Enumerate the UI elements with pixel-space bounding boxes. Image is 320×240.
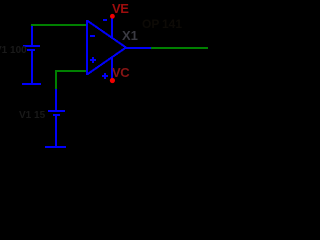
svg-text:V1 15: V1 15 xyxy=(19,110,46,121)
svg-text:141: 141 xyxy=(162,17,182,31)
svg-text:X1: X1 xyxy=(122,28,138,43)
svg-text:V1 100: V1 100 xyxy=(0,45,27,56)
svg-text:VE: VE xyxy=(112,1,129,16)
svg-text:OP: OP xyxy=(142,17,159,31)
svg-text:VC: VC xyxy=(112,65,130,80)
